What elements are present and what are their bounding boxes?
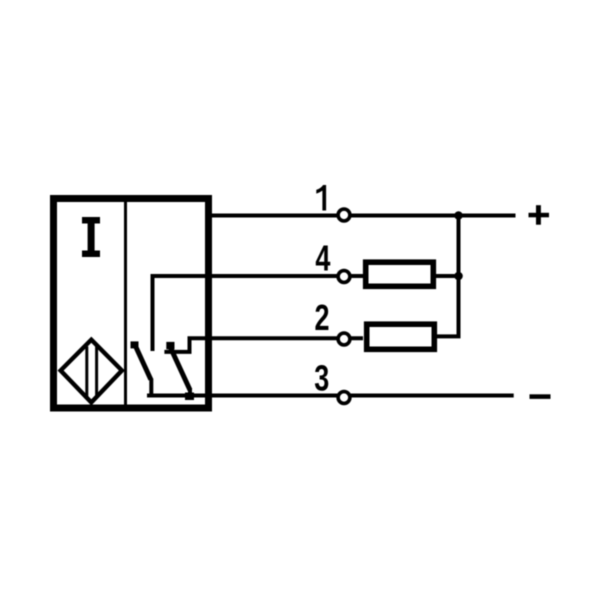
NO contact arm (output 4 switch) bbox=[135, 345, 151, 380]
wire: output 4 horizontal and drop inside body bbox=[153, 276, 364, 351]
letter I (inductive) bbox=[82, 217, 100, 257]
resistor R2 on output 2 bbox=[367, 324, 435, 349]
terminal circle pin 3 bbox=[338, 392, 350, 404]
sensor cell divider bbox=[124, 199, 127, 409]
pin label 1 bbox=[316, 185, 326, 211]
wire: output 2 with step to fixed contact bar bbox=[164, 338, 363, 352]
svg-text:4: 4 bbox=[315, 238, 330, 279]
NO contact arm drop to rail bbox=[149, 379, 153, 397]
resistor R1 on output 4 bbox=[366, 262, 434, 286]
minus terminal bbox=[530, 394, 551, 399]
wire: resistor R1 output to branch bbox=[436, 274, 460, 278]
wire: output 3 common rail to minus terminal bbox=[147, 394, 514, 398]
wire: output 1 from sensor body to plus terminal bbox=[206, 214, 516, 218]
plus terminal bbox=[529, 205, 550, 225]
svg-text:3: 3 bbox=[314, 358, 329, 399]
diamond inner right line bbox=[95, 347, 98, 397]
NC contact arm (output 2 switch) bbox=[170, 346, 191, 391]
wire: output 4 drop redone above switch (fixed contact) bbox=[151, 276, 155, 351]
NC contact arm pivot blob bbox=[166, 342, 174, 349]
terminal circle pin 1 bbox=[338, 209, 350, 221]
junction dot wire 1 / branch bbox=[454, 211, 463, 220]
wire: vertical branch from wire 1 down to resistor R2 output bbox=[437, 216, 459, 337]
inductive sensor symbol diamond bbox=[61, 340, 122, 403]
junction dot: NC arm to output 3 rail bbox=[185, 393, 194, 401]
sensor body outline bbox=[54, 199, 209, 409]
terminal circle pin 4 bbox=[338, 271, 350, 283]
diamond inner left line bbox=[85, 347, 88, 397]
svg-text:2: 2 bbox=[314, 297, 329, 338]
junction dot wire 4 / branch bbox=[454, 272, 463, 281]
terminal circle pin 2 bbox=[338, 333, 350, 345]
NO contact arm pivot blob bbox=[131, 341, 139, 348]
NC contact arm drop to rail bbox=[188, 388, 192, 397]
